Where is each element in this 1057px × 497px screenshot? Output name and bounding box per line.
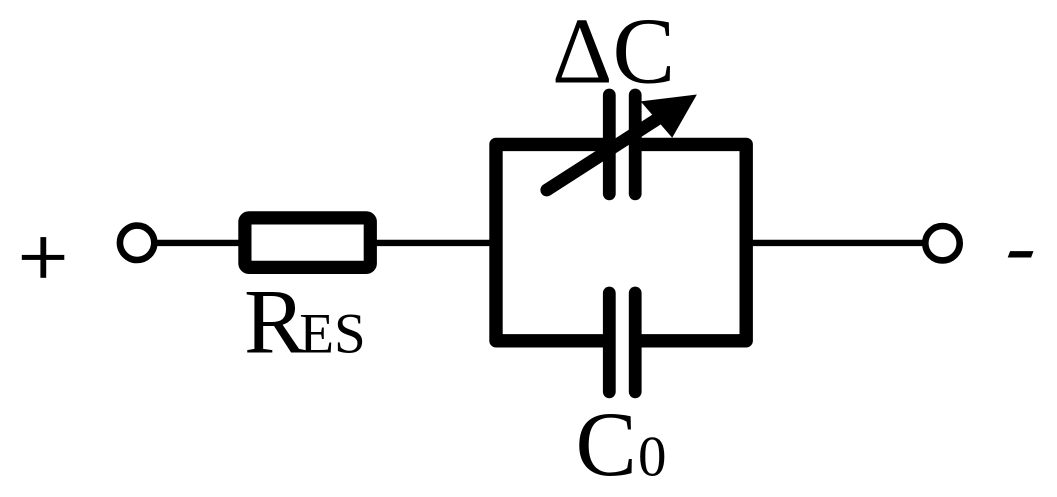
svg-text:ΔC: ΔC [552, 0, 675, 104]
label R_ES [244, 271, 366, 373]
wire from parallel box to right terminal [745, 240, 942, 246]
plus terminal label + [22, 237, 65, 278]
svg-text:R: R [244, 271, 306, 373]
right terminal circle [925, 226, 959, 260]
left terminal circle [120, 226, 154, 260]
capacitor C0 plates [609, 293, 635, 392]
resistor R_ES [245, 218, 370, 268]
wire from left terminal to resistor [137, 240, 246, 246]
svg-text:0: 0 [638, 426, 667, 489]
label C0 [576, 393, 667, 495]
gap in bottom wire at capacitor C0 [610, 325, 635, 356]
gap in top wire at variable capacitor [610, 129, 635, 160]
svg-text:ES: ES [299, 303, 366, 366]
variable capacitor arrow [547, 95, 697, 191]
wire from resistor to parallel box [368, 240, 497, 246]
parallel box (loop wire) [496, 144, 746, 340]
minus terminal label - [1008, 251, 1034, 257]
svg-text:C: C [576, 393, 637, 495]
variable capacitor dC plates [609, 95, 635, 194]
